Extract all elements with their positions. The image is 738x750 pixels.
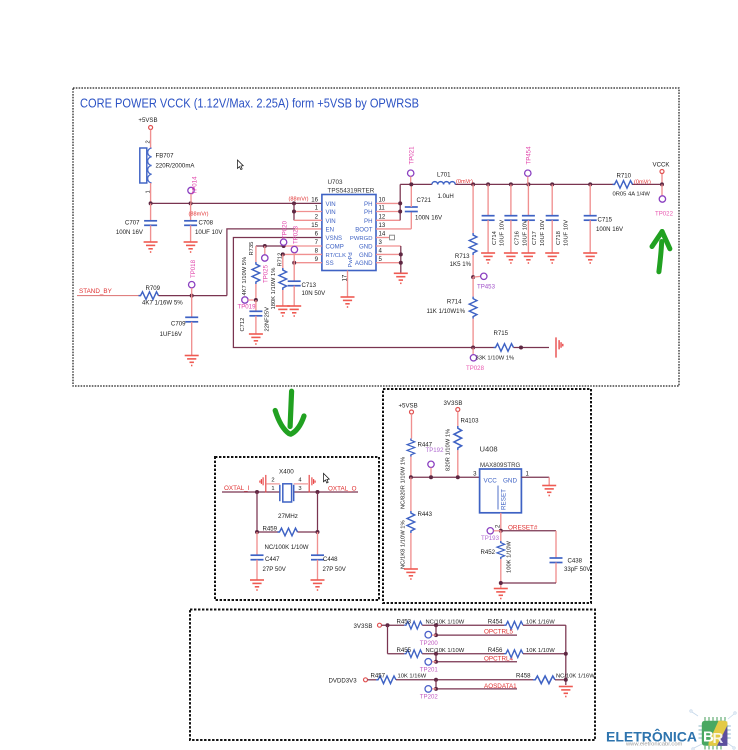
test point TP020 xyxy=(280,220,288,245)
ground xyxy=(276,306,290,316)
frame box 1 CORE POWER VCCK xyxy=(73,88,679,386)
svg-text:27P 50V: 27P 50V xyxy=(263,566,287,573)
svg-text:OPCTRL5: OPCTRL5 xyxy=(484,629,514,636)
svg-text:NC/10K 1/16W: NC/10K 1/16W xyxy=(556,673,595,679)
logo ELETRONICA BR xyxy=(606,710,736,750)
svg-text:R4103: R4103 xyxy=(461,417,480,424)
svg-text:3: 3 xyxy=(298,486,301,492)
resistor R735 xyxy=(242,242,260,300)
svg-text:TP201: TP201 xyxy=(420,666,439,673)
svg-text:TP028: TP028 xyxy=(466,365,485,372)
frame box 4 bottom xyxy=(190,610,595,741)
capacitor C709 xyxy=(160,296,199,356)
svg-text:C718: C718 xyxy=(556,231,562,245)
svg-text:VIN: VIN xyxy=(326,218,336,225)
pin 14 no-connect xyxy=(376,235,395,240)
svg-text:100N 16V: 100N 16V xyxy=(116,229,144,236)
svg-text:10K 1/16W: 10K 1/16W xyxy=(398,673,427,679)
svg-text:NC/100K 1/10W: NC/100K 1/10W xyxy=(265,544,309,551)
svg-text:3V3SB: 3V3SB xyxy=(444,400,463,407)
green up arrow xyxy=(652,232,670,272)
resistor R447 xyxy=(401,439,433,510)
svg-text:VSNS: VSNS xyxy=(326,235,343,242)
ground xyxy=(249,334,263,344)
resistor R459 xyxy=(257,526,318,552)
test point TP193 xyxy=(481,528,501,542)
wire COMP xyxy=(256,245,284,247)
test point TP023 xyxy=(291,225,299,262)
wire xyxy=(514,347,550,349)
svg-text:R: R xyxy=(713,730,724,747)
svg-text:17: 17 xyxy=(341,274,348,281)
svg-text:10UF 10V: 10UF 10V xyxy=(540,220,546,246)
ground xyxy=(184,242,198,252)
resistor R458 xyxy=(516,672,595,683)
wire RT/CLK xyxy=(283,253,322,255)
svg-text:27P 50V: 27P 50V xyxy=(323,566,347,573)
svg-text:TP200: TP200 xyxy=(420,640,439,647)
test point TP454 xyxy=(525,146,533,184)
frame box 2 crystal xyxy=(215,457,379,600)
ground xyxy=(250,580,264,590)
ground xyxy=(144,242,158,252)
resistor R715 xyxy=(473,330,514,362)
test point TP018 xyxy=(189,259,198,295)
svg-text:TP018: TP018 xyxy=(190,259,197,278)
svg-text:R443: R443 xyxy=(418,511,433,518)
svg-text:C716: C716 xyxy=(515,231,521,245)
net stub OPCTRL5 xyxy=(434,625,517,637)
wire xyxy=(555,679,566,681)
svg-text:R715: R715 xyxy=(494,330,509,337)
capacitor C716 xyxy=(504,184,528,253)
svg-text:10N 50V: 10N 50V xyxy=(302,290,327,297)
svg-text:TP023: TP023 xyxy=(292,225,299,244)
svg-text:RESET: RESET xyxy=(501,489,508,510)
capacitor C708 xyxy=(184,203,223,242)
svg-text:C715: C715 xyxy=(598,217,613,224)
svg-text:RT/CLK: RT/CLK xyxy=(326,253,347,259)
svg-text:1UF16V: 1UF16V xyxy=(160,331,183,338)
ground xyxy=(494,589,508,599)
svg-text:L701: L701 xyxy=(437,172,451,179)
svg-text:GND: GND xyxy=(359,244,373,251)
wire GND bus pins 3,4,5 xyxy=(376,246,403,273)
capacitor C714 xyxy=(482,184,506,253)
svg-text:OXTAL_O: OXTAL_O xyxy=(328,486,357,493)
svg-text:R712: R712 xyxy=(278,253,284,267)
svg-text:PwPd: PwPd xyxy=(348,252,354,267)
wire xyxy=(150,130,152,149)
svg-text:C714: C714 xyxy=(492,230,498,245)
svg-text:TP021: TP021 xyxy=(408,146,415,165)
svg-text:22NF25V: 22NF25V xyxy=(264,307,270,332)
svg-text:2: 2 xyxy=(271,478,274,484)
resistor R457 xyxy=(371,672,427,683)
svg-text:U408: U408 xyxy=(480,445,498,454)
node 3V3SB xyxy=(444,400,463,426)
svg-text:(88mVr): (88mVr) xyxy=(189,211,209,217)
wire xyxy=(77,295,139,297)
ground xyxy=(341,297,355,307)
svg-text:33pF 50V: 33pF 50V xyxy=(564,566,591,573)
ground xyxy=(559,687,573,697)
svg-text:+5VSB: +5VSB xyxy=(399,403,418,410)
svg-text:AGND: AGND xyxy=(355,260,373,267)
wire VIN rail xyxy=(151,202,322,204)
test point TP022 xyxy=(655,184,674,217)
svg-text:10UF 10V: 10UF 10V xyxy=(564,220,570,246)
svg-text:OXTAL_I: OXTAL_I xyxy=(224,485,250,492)
svg-text:2: 2 xyxy=(146,140,152,143)
svg-text:TP193: TP193 xyxy=(481,535,500,542)
pin numbers right xyxy=(379,197,386,263)
wire xyxy=(396,679,533,681)
svg-text:TP020: TP020 xyxy=(281,220,288,239)
test point TP025 xyxy=(262,246,270,283)
svg-text:R453: R453 xyxy=(397,619,412,626)
capacitor C715 xyxy=(584,184,624,253)
capacitor C717 xyxy=(522,184,546,253)
wire xyxy=(256,492,258,532)
svg-text:TP202: TP202 xyxy=(420,694,439,701)
mouse cursor 1 xyxy=(238,160,244,170)
svg-text:+5VSB: +5VSB xyxy=(138,117,157,124)
resistor R456 xyxy=(488,647,555,658)
svg-text:100N 16V: 100N 16V xyxy=(415,215,443,222)
svg-text:180K 1/10W 1%: 180K 1/10W 1% xyxy=(271,268,277,310)
svg-text:(0mVr): (0mVr) xyxy=(634,180,651,186)
svg-text:R452: R452 xyxy=(481,549,496,556)
resistor R714 xyxy=(426,277,476,347)
wire pin 1 to ground xyxy=(521,470,549,485)
test point TP192 xyxy=(426,447,445,477)
crystal symbol xyxy=(280,484,294,502)
svg-text:0R05 4A 1/4W: 0R05 4A 1/4W xyxy=(613,191,651,197)
svg-text:R710: R710 xyxy=(617,173,632,180)
svg-text:PH: PH xyxy=(364,218,372,225)
resistor R4103 xyxy=(446,417,479,477)
svg-text:14: 14 xyxy=(379,231,386,238)
node DVDD3V3 xyxy=(329,677,377,684)
node +5VSB xyxy=(399,403,418,439)
svg-text:820R 1/10W 1%: 820R 1/10W 1% xyxy=(446,429,452,471)
ferrite bead FB707 xyxy=(140,148,196,183)
fence right xyxy=(309,475,315,493)
svg-text:U703: U703 xyxy=(328,179,344,186)
svg-text:1: 1 xyxy=(271,486,274,492)
svg-text:VIN: VIN xyxy=(326,201,336,208)
svg-text:33K 1/10W 1%: 33K 1/10W 1% xyxy=(476,355,515,361)
node VCCK xyxy=(653,162,670,185)
wire EN route xyxy=(227,229,295,296)
svg-text:16: 16 xyxy=(311,197,318,204)
test point TP014 xyxy=(188,176,199,203)
svg-text:R457: R457 xyxy=(371,672,386,679)
ground xyxy=(394,273,408,283)
frame box 3 U408 xyxy=(383,389,591,603)
wire xyxy=(523,624,566,626)
svg-text:C713: C713 xyxy=(302,282,317,289)
svg-text:11: 11 xyxy=(379,205,386,212)
wire pin3 rail xyxy=(411,476,480,478)
wire xyxy=(501,530,556,532)
svg-text:1K5 1%: 1K5 1% xyxy=(450,261,472,268)
svg-text:(88mVr): (88mVr) xyxy=(289,197,309,203)
svg-text:X400: X400 xyxy=(279,469,294,476)
svg-text:3V3SB: 3V3SB xyxy=(354,623,373,630)
svg-text:R456: R456 xyxy=(488,647,503,654)
wire xyxy=(501,582,556,584)
chip pin names xyxy=(326,201,374,268)
pin 17 pad xyxy=(341,271,348,298)
svg-text:11K 1/10W1%: 11K 1/10W1% xyxy=(426,308,465,315)
inductor L701 xyxy=(432,172,455,200)
ground xyxy=(404,569,418,579)
svg-text:12: 12 xyxy=(379,214,386,221)
ground xyxy=(287,306,301,316)
test point TP028 xyxy=(466,348,485,373)
svg-text:R459: R459 xyxy=(263,526,278,533)
svg-text:R714: R714 xyxy=(447,298,462,305)
op-amp U1 : regulator U703 TPS54319RTER xyxy=(322,179,376,271)
svg-text:TP019: TP019 xyxy=(238,304,257,311)
capacitor C721 on BOOT xyxy=(376,184,443,229)
svg-text:10: 10 xyxy=(379,197,386,204)
svg-text:R709: R709 xyxy=(146,285,161,292)
capacitor C448 xyxy=(311,532,347,580)
test point TP200 xyxy=(420,631,439,646)
wire OXTAL rail xyxy=(222,491,280,493)
svg-text:220R/2000mA: 220R/2000mA xyxy=(156,163,196,170)
svg-text:(0mVr): (0mVr) xyxy=(456,179,473,185)
wire VCCK rail xyxy=(400,183,432,185)
svg-text:EN: EN xyxy=(326,226,334,233)
svg-text:R735: R735 xyxy=(249,242,255,256)
svg-text:CORE POWER VCCK (1.12V/Max. 2.: CORE POWER VCCK (1.12V/Max. 2.25A) form … xyxy=(80,97,419,111)
svg-text:1.0uH: 1.0uH xyxy=(438,193,454,200)
wire pin stubs xyxy=(266,483,280,485)
fence left xyxy=(260,475,266,493)
svg-text:TP014: TP014 xyxy=(192,176,199,195)
svg-text:C438: C438 xyxy=(568,558,583,565)
svg-text:PH: PH xyxy=(364,201,372,208)
svg-text:MAX809STRG: MAX809STRG xyxy=(480,462,521,469)
svg-text:PWRGD: PWRGD xyxy=(350,236,373,242)
svg-text:C709: C709 xyxy=(171,321,186,328)
svg-text:C717: C717 xyxy=(532,231,538,245)
svg-text:R455: R455 xyxy=(397,647,412,654)
svg-text:STAND_BY: STAND_BY xyxy=(79,288,113,295)
svg-text:COMP: COMP xyxy=(326,244,344,251)
ground (chassis fence) xyxy=(556,337,563,357)
svg-text:C448: C448 xyxy=(323,556,338,563)
svg-text:TP025: TP025 xyxy=(263,264,270,283)
green down arrow xyxy=(275,391,304,434)
ground xyxy=(311,580,325,590)
capacitor C713 xyxy=(288,263,326,306)
resistor R453 xyxy=(397,619,465,630)
wire PH bus xyxy=(376,184,402,220)
wire xyxy=(387,625,389,654)
ground xyxy=(185,356,199,366)
wire xyxy=(422,624,504,626)
svg-text:13: 13 xyxy=(379,222,386,229)
resistor R709 xyxy=(139,285,184,307)
ground xyxy=(542,486,556,496)
svg-text:100K 1/10W: 100K 1/10W xyxy=(506,541,512,573)
svg-text:OPCTRL4: OPCTRL4 xyxy=(484,655,514,662)
svg-text:C707: C707 xyxy=(125,220,140,227)
resistor R713 xyxy=(450,184,477,277)
svg-text:NC/1K8 1/10W 1%: NC/1K8 1/10W 1% xyxy=(401,520,407,569)
wire pin 2 RESET xyxy=(495,513,502,531)
capacitor C707 xyxy=(116,203,157,242)
test point TP019 xyxy=(238,297,257,311)
net stub OPCTRL4 xyxy=(434,654,517,664)
svg-text:R713: R713 xyxy=(455,253,470,260)
resistor R443 xyxy=(401,477,433,569)
test point TP202 xyxy=(420,686,439,701)
node junctions xyxy=(149,201,153,205)
svg-text:PH: PH xyxy=(364,209,372,216)
svg-text:C712: C712 xyxy=(240,318,246,332)
wire xyxy=(159,295,227,297)
svg-text:10UF 10V: 10UF 10V xyxy=(195,229,223,236)
resistor R712 xyxy=(271,253,287,310)
svg-text:4K7 1/16W 5%: 4K7 1/16W 5% xyxy=(142,300,183,307)
svg-text:DVDD3V3: DVDD3V3 xyxy=(329,677,358,684)
svg-text:TP454: TP454 xyxy=(526,146,533,165)
mouse cursor 2 xyxy=(324,473,330,483)
svg-text:TP022: TP022 xyxy=(655,211,674,218)
svg-text:TP192: TP192 xyxy=(426,447,445,454)
svg-text:TP453: TP453 xyxy=(477,283,496,290)
svg-text:GND: GND xyxy=(359,252,373,259)
net stub AOSDATA1 xyxy=(434,680,517,691)
wire VIN bus pins 1,2 xyxy=(292,203,322,220)
IC U408 MAX809STRG xyxy=(480,445,522,513)
svg-text:TPS54319RTER: TPS54319RTER xyxy=(328,188,375,195)
resistor R454 xyxy=(488,619,555,630)
resistor R455 xyxy=(388,647,465,658)
pin numbers left xyxy=(311,197,318,263)
svg-text:AOSDATA1: AOSDATA1 xyxy=(484,683,517,690)
capacitor C447 xyxy=(251,532,287,580)
wire VSNS route xyxy=(233,238,473,348)
svg-text:R454: R454 xyxy=(488,619,503,626)
wire xyxy=(523,653,566,655)
svg-text:10UF 10V: 10UF 10V xyxy=(500,220,506,246)
svg-text:VCC: VCC xyxy=(484,478,498,485)
test point TP453 xyxy=(473,273,495,290)
svg-text:VCCK: VCCK xyxy=(653,162,670,169)
svg-text:NC/820R 1/10W 1%: NC/820R 1/10W 1% xyxy=(401,457,407,509)
wire xyxy=(150,183,152,203)
capacitor C712 xyxy=(240,300,270,334)
svg-text:R458: R458 xyxy=(516,672,531,679)
svg-text:C447: C447 xyxy=(265,556,280,563)
svg-text:15: 15 xyxy=(311,222,318,229)
node 3V3SB xyxy=(354,623,405,630)
wire xyxy=(422,653,504,655)
svg-text:SS: SS xyxy=(326,260,334,267)
wire SS xyxy=(294,262,322,264)
test point TP021 xyxy=(408,146,416,184)
test point TP201 xyxy=(420,659,439,674)
svg-text:100N 16V: 100N 16V xyxy=(596,226,624,233)
svg-text:BOOT: BOOT xyxy=(355,226,373,233)
svg-text:www.eletronicabr.com: www.eletronicabr.com xyxy=(625,742,683,748)
capacitor C718 xyxy=(546,184,570,253)
svg-text:FB707: FB707 xyxy=(156,153,175,160)
resistor R710 xyxy=(613,173,652,198)
svg-text:C708: C708 xyxy=(199,220,214,227)
svg-text:C721: C721 xyxy=(417,197,432,204)
svg-text:10UF 10V: 10UF 10V xyxy=(522,220,528,246)
svg-text:27MHz: 27MHz xyxy=(278,513,298,520)
capacitor C438 xyxy=(550,531,592,583)
svg-text:VIN: VIN xyxy=(326,209,336,216)
resistor R452 xyxy=(481,531,513,589)
svg-text:4K7 1/10W 5%: 4K7 1/10W 5% xyxy=(242,257,248,296)
svg-text:GND: GND xyxy=(503,478,517,485)
